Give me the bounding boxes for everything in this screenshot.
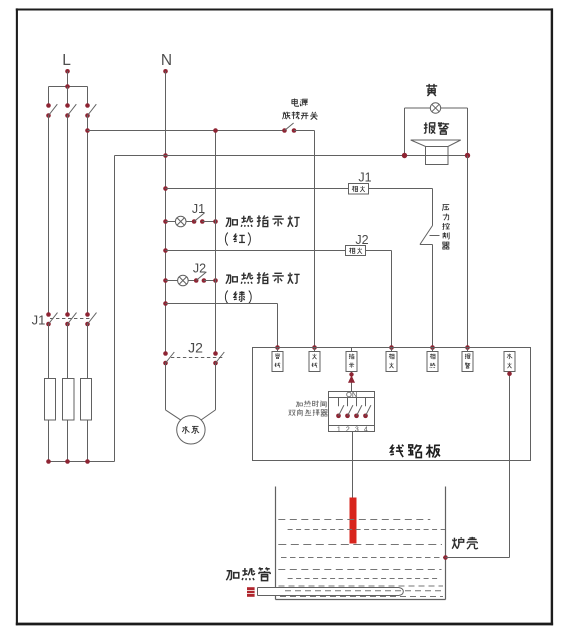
- wire phase3 to rotary switch: [88, 130, 285, 132]
- wire N to J2 coil: [166, 250, 346, 252]
- wire alarm feed drop to board terminal 6: [465, 156, 470, 350]
- contact J2 pole left: [163, 351, 174, 365]
- relay coil J1: [349, 184, 369, 195]
- heating probe element (red): [350, 498, 357, 544]
- label 加热指示灯 row2: [226, 272, 300, 283]
- label (绿): [225, 291, 251, 304]
- wire phase feeders: [49, 87, 88, 106]
- label 加热管: [226, 567, 270, 580]
- svg-text:N: N: [161, 52, 172, 69]
- water level dashed line 2: [288, 529, 445, 531]
- junction N y303: [163, 301, 168, 306]
- wire L distribution bus: [49, 84, 88, 89]
- label 旋转开关: [283, 112, 318, 120]
- junction N y156: [163, 153, 168, 158]
- label 线路板: [390, 444, 440, 457]
- resistor R3 heater element: [81, 379, 92, 421]
- label J2 pump contact: [188, 339, 203, 355]
- wire lamp1 to live: [202, 219, 218, 224]
- wire lamp2 to live: [204, 278, 218, 283]
- plug arrow P1: [348, 372, 355, 383]
- label 加热指示灯 row1: [226, 215, 300, 226]
- terminal T3 on board: [346, 348, 357, 372]
- svg-text:4: 4: [364, 426, 368, 433]
- DIP pole 4: [363, 398, 371, 434]
- junction N y250: [163, 248, 168, 253]
- label 黄: [426, 84, 437, 96]
- DIP pole 3: [354, 398, 362, 434]
- svg-text:1: 1: [337, 426, 341, 433]
- junction N y188: [163, 186, 168, 191]
- water level dashed line 9: [280, 596, 443, 598]
- water level dashed line 6: [288, 578, 440, 580]
- svg-text:J1: J1: [32, 313, 46, 328]
- label 加热时间: [296, 401, 326, 407]
- svg-text:J2: J2: [193, 262, 206, 276]
- wire DIP to heating probe: [352, 432, 354, 498]
- junction tank shell: [443, 555, 448, 560]
- water level dashed line 5: [278, 569, 441, 571]
- junction N y280: [163, 278, 168, 283]
- heating tube terminal block (red): [247, 587, 255, 597]
- wire N to J1 coil: [166, 188, 349, 190]
- water level dashed line 3: [278, 544, 442, 546]
- wire switched live riser x215: [213, 128, 218, 353]
- wires J2 contacts to pump: [166, 363, 216, 420]
- tank 炉壳 outline: [276, 487, 446, 600]
- wire alarm left leg: [402, 108, 407, 158]
- terminal T1 on board: [272, 348, 283, 372]
- wire phase 3 down: [85, 116, 90, 315]
- label J2 contact: [193, 262, 206, 276]
- wire common rail y156: [115, 155, 468, 157]
- wire tank shell to terminal7: [446, 557, 510, 559]
- wire phase 1 down: [48, 116, 50, 315]
- label J1 contact: [192, 202, 205, 216]
- water level dashed line 8: [285, 590, 444, 592]
- DIP pole 2: [345, 398, 353, 434]
- wire rotary switch output: [294, 130, 315, 132]
- wire N to board terminal 1: [166, 304, 280, 350]
- wire pressure switch drop to board terminal 5: [430, 245, 435, 350]
- label J2 coil: [355, 233, 368, 247]
- DIP pole 1: [336, 398, 344, 434]
- label J1 main contact: [32, 313, 46, 328]
- svg-text:J2: J2: [355, 233, 368, 247]
- label 双向选择器: [289, 409, 328, 416]
- wire alarm right leg: [465, 108, 470, 158]
- node L terminal dot: [65, 69, 70, 74]
- wires heater elements to star point: [49, 420, 88, 462]
- svg-text:L: L: [62, 52, 71, 69]
- water level dashed line 4: [281, 557, 445, 559]
- contact J2 aux: [188, 272, 206, 283]
- lamp HL2 heating indicator green: [166, 275, 189, 286]
- switch QS pole 2: [65, 103, 76, 118]
- node N terminal dot: [163, 69, 168, 74]
- speaker LS1 alarm sounder: [411, 140, 461, 165]
- svg-text:J1: J1: [358, 171, 371, 185]
- wires J1 contacts to heater elements: [49, 324, 88, 379]
- node N label: [161, 52, 172, 69]
- DIP switch S2 box: [329, 392, 375, 432]
- switch S1 rotary power switch: [282, 123, 296, 133]
- terminal T6 on board: [462, 348, 473, 372]
- resistor R2 heater element: [63, 379, 75, 421]
- contact J1 aux: [186, 213, 205, 224]
- terminal T7 on board: [504, 352, 515, 372]
- terminal T2 on board: [309, 348, 320, 372]
- wire element return riser: [114, 156, 116, 462]
- switch QS pole 3: [85, 103, 96, 118]
- terminal T5 on board: [427, 348, 438, 372]
- relay coil J2: [346, 246, 366, 256]
- label 炉壳: [452, 537, 478, 549]
- label J1 coil: [358, 171, 371, 185]
- wire J2 coil drop to board terminal 4: [366, 251, 394, 350]
- contact J1 pole 2: [65, 312, 76, 326]
- label 电源: [292, 99, 308, 107]
- switch SP pressure controller contact: [420, 226, 440, 245]
- dashed link J1 poles: [50, 318, 92, 320]
- lamp HL1 heating indicator red: [166, 216, 187, 227]
- label ON: [346, 390, 357, 399]
- wire terminal3 to DIP switch: [351, 372, 353, 392]
- terminal T4 on board: [386, 348, 397, 372]
- wire terminal7 ground drop: [507, 371, 512, 557]
- svg-text:2: 2: [346, 426, 350, 433]
- contact J1 pole 1: [46, 312, 57, 326]
- label (红): [225, 233, 250, 246]
- motor M water pump 水泵: [177, 416, 205, 444]
- svg-text:J2: J2: [188, 339, 203, 355]
- label 压力控制器: [442, 205, 449, 250]
- label 报警: [424, 122, 449, 134]
- dashed link J2 poles: [171, 357, 223, 359]
- node L label: [62, 52, 71, 69]
- junction N y221: [163, 219, 168, 224]
- wire star point bus: [46, 459, 114, 464]
- wire phase 2 down: [67, 116, 69, 315]
- heating tube body: [258, 588, 404, 596]
- contact J1 pole 3: [85, 312, 96, 326]
- wire N main drop: [165, 71, 167, 353]
- resistor R1 heater element: [45, 379, 56, 421]
- contact J2 pole right: [213, 351, 224, 365]
- circuit board box 线路板: [253, 348, 531, 461]
- water level dashed line 7: [279, 585, 444, 587]
- wire live drop to board terminal 2: [312, 131, 317, 350]
- svg-text:3: 3: [355, 426, 359, 433]
- wire L drop: [67, 71, 69, 86]
- water level dashed line 1: [278, 519, 430, 521]
- switch QS pole 1: [46, 103, 57, 118]
- wire J1 coil to pressure switch: [369, 189, 433, 226]
- svg-text:J1: J1: [192, 202, 205, 216]
- lamp HL3 yellow alarm lamp: [405, 103, 468, 113]
